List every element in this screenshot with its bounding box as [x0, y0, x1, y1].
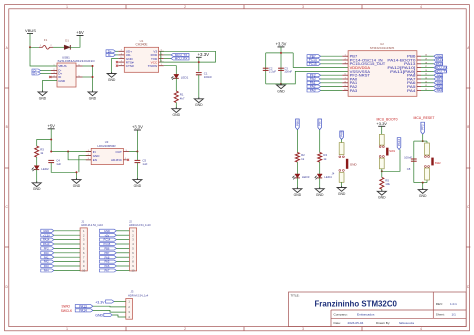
IC U3 LDK220M50R — [86, 140, 129, 164]
wire LED2 to ground — [36, 169, 38, 183]
wire R4 to LED4 — [319, 162, 321, 174]
svg-text:PA13: PA13 — [43, 242, 50, 246]
wire U3 OUT to +3.3V — [129, 130, 137, 152]
svg-text:2: 2 — [121, 50, 122, 52]
svg-text:GND: GND — [419, 194, 427, 198]
svg-text:GND: GND — [73, 184, 81, 188]
switch SW1 — [379, 134, 395, 168]
svg-text:GND: GND — [173, 113, 181, 117]
junction BOOT0 — [381, 170, 383, 172]
no-connect U1 RTS# — [116, 61, 118, 63]
svg-text:GND: GND — [33, 187, 41, 191]
power +3.3V (regulator out) — [132, 125, 143, 130]
jumper J4 GND-enable — [332, 143, 358, 183]
svg-text:PC14: PC14 — [104, 238, 111, 242]
svg-text:PA3: PA3 — [44, 264, 49, 268]
net label PB6 (LED branch) — [295, 119, 299, 130]
wire +3.3V to C1 — [198, 57, 200, 71]
ground (LED4) — [315, 187, 324, 197]
ground (USB1 GND pin) — [38, 90, 47, 100]
power +3.3V (CH340 V3) — [196, 52, 209, 58]
svg-text:D+: D+ — [33, 72, 37, 76]
svg-text:PA3: PA3 — [350, 89, 358, 93]
svg-text:1k: 1k — [301, 157, 305, 161]
svg-text:GND: GND — [95, 313, 103, 317]
svg-text:Drawn By:: Drawn By: — [376, 321, 390, 325]
net label PA5 (J2 pin 8) — [100, 260, 130, 264]
svg-text:1: 1 — [66, 5, 68, 9]
svg-text:3: 3 — [302, 5, 304, 9]
svg-text:PA4: PA4 — [407, 89, 415, 93]
svg-text:+3.3V: +3.3V — [43, 233, 50, 237]
svg-text:B: B — [6, 125, 8, 129]
svg-text:4: 4 — [121, 61, 122, 63]
wire C5 to ground — [136, 163, 138, 180]
ground (R5) — [377, 190, 386, 200]
svg-text:GND: GND — [294, 193, 302, 197]
svg-text:Sheet:: Sheet: — [436, 313, 445, 317]
svg-text:6: 6 — [345, 74, 346, 76]
svg-text:PA8: PA8 — [340, 131, 344, 137]
net label PA0 (U2) — [307, 77, 342, 81]
net label PA6 (J2 pin 9) — [100, 264, 130, 268]
svg-text:3: 3 — [302, 327, 304, 331]
svg-text:PA0: PA0 — [44, 251, 49, 255]
no-connect USB1 ID pin — [49, 76, 51, 78]
ground (reset) — [418, 188, 427, 198]
fuse F1 — [39, 38, 53, 49]
svg-text:J2: J2 — [129, 219, 132, 223]
svg-text:2: 2 — [184, 327, 186, 331]
wire R3 to LED2 — [36, 157, 38, 166]
svg-text:3: 3 — [88, 158, 89, 160]
net label PF2 (U2) — [307, 73, 342, 77]
svg-text:+5V: +5V — [104, 233, 109, 237]
svg-text:PA5: PA5 — [104, 260, 109, 264]
net label PA0 (J1 pin 6) — [41, 251, 80, 255]
svg-text:PB7: PB7 — [104, 251, 110, 255]
net label GND (J2 pin 1) — [100, 229, 130, 233]
wire decoupling loop — [266, 47, 294, 84]
net label PB6 (U2 right) — [421, 54, 443, 58]
svg-text:5: 5 — [126, 150, 127, 152]
no-connect U3 ADJ — [127, 159, 129, 161]
junction reset top — [422, 140, 424, 142]
resistor R5 — [380, 177, 391, 189]
svg-text:MCU_RX: MCU_RX — [175, 57, 188, 61]
junction reset bottom — [422, 182, 424, 184]
svg-text:Embarcados: Embarcados — [357, 313, 375, 317]
wire LED3 to ground — [296, 178, 298, 189]
net label PC14 (U2) — [307, 58, 342, 62]
svg-text:C8: C8 — [407, 167, 411, 171]
wire fuse to diode — [53, 46, 65, 48]
svg-text:GND: GND — [134, 184, 142, 188]
net label PA13 (J3) — [75, 304, 126, 308]
svg-text:HDR-M-2.54_1x10: HDR-M-2.54_1x10 — [81, 223, 103, 227]
net label PB7 (U2) — [307, 54, 342, 58]
net label D- (U1) — [106, 53, 118, 57]
svg-text:3: 3 — [345, 62, 346, 64]
svg-text:SWIO: SWIO — [62, 305, 71, 309]
wire LED4 to ground — [319, 178, 321, 189]
net label GND (J3) — [95, 313, 126, 317]
svg-text:Franzininho STM32C0: Franzininho STM32C0 — [314, 299, 397, 308]
svg-text:Date:: Date: — [334, 321, 342, 325]
net label MCU_TX (U2 right) — [421, 70, 447, 74]
svg-text:PA4: PA4 — [44, 269, 49, 273]
svg-text:2.2uF: 2.2uF — [269, 70, 276, 74]
svg-text:PC15: PC15 — [104, 242, 111, 246]
svg-text:PB7: PB7 — [318, 120, 322, 126]
wire LED1 to R1 — [175, 78, 177, 91]
svg-text:1: 1 — [161, 64, 162, 66]
wire VDD supply — [293, 67, 348, 69]
svg-text:VBUS: VBUS — [25, 28, 36, 33]
svg-text:5: 5 — [79, 75, 80, 77]
wire VBUS to USB1 pin1 — [30, 47, 57, 66]
capacitor C5 — [135, 152, 148, 166]
junction 3V3 out — [136, 151, 138, 153]
wire C4 to ground rail — [51, 163, 76, 180]
svg-text:LED3: LED3 — [302, 175, 310, 179]
wire U1 GND — [112, 59, 119, 74]
svg-text:LED2: LED2 — [41, 167, 49, 171]
svg-text:LED1: LED1 — [181, 76, 189, 80]
net label PB7 (J2 pin 6) — [100, 251, 130, 255]
svg-text:OUT: OUT — [116, 150, 123, 154]
junction regulator ground — [76, 171, 78, 173]
svg-text:+3.3V: +3.3V — [376, 121, 387, 126]
wire SW1 to R5 — [381, 169, 383, 178]
svg-text:SWCLK: SWCLK — [61, 309, 73, 313]
svg-text:GND: GND — [350, 163, 358, 167]
net label D+ (USB) — [32, 72, 51, 76]
svg-text:3: 3 — [54, 72, 55, 74]
wire +3.3V to SW1 — [381, 126, 383, 134]
svg-text:100nF: 100nF — [284, 70, 292, 74]
svg-text:+3.3V: +3.3V — [276, 42, 287, 47]
svg-text:TITLE:: TITLE: — [291, 294, 300, 298]
net label PA5 (U2 right) — [421, 85, 443, 89]
wire USB1 GND — [43, 81, 58, 92]
wire +5V rail — [37, 129, 91, 152]
svg-text:D1: D1 — [65, 38, 69, 42]
ground (C5) — [133, 178, 142, 188]
svg-text:PF2: PF2 — [421, 124, 425, 130]
junction decoupling — [280, 52, 282, 85]
net name MCU_BOOT0 — [376, 117, 397, 121]
net label PA7 (U2 right) — [421, 77, 443, 81]
svg-text:629-D84A262101010: 629-D84A262101010 — [58, 59, 96, 63]
wire VBUS to fuse — [30, 34, 39, 48]
svg-text:PA1: PA1 — [44, 255, 49, 259]
svg-text:PF2: PF2 — [44, 247, 49, 251]
ground (LED2) — [32, 181, 41, 191]
svg-text:Company:: Company: — [334, 313, 348, 317]
svg-text:PA2: PA2 — [44, 260, 49, 264]
power +5V (regulator input) — [47, 124, 55, 129]
net label MCU_TX — [164, 53, 189, 57]
wire PB7 to R4 — [319, 130, 321, 153]
IC U1 CH340E — [118, 39, 164, 72]
svg-text:+3.3V: +3.3V — [95, 301, 105, 305]
net label MCU_RX (U2 right) — [421, 66, 448, 70]
svg-text:1.0.1: 1.0.1 — [450, 302, 457, 306]
wire reset loop — [414, 141, 427, 183]
svg-text:EN: EN — [93, 158, 97, 162]
svg-text:9: 9 — [121, 64, 122, 66]
wire EN tie — [68, 152, 91, 160]
svg-text:2: 2 — [345, 59, 346, 61]
svg-text:PA14: PA14 — [43, 238, 50, 242]
svg-text:100nF: 100nF — [404, 156, 412, 160]
power +5V (USB) — [76, 30, 84, 35]
wire diode to +5V — [70, 36, 81, 48]
net label +5V (J2 pin 2) — [100, 233, 130, 237]
svg-text:PC15: PC15 — [309, 62, 317, 66]
net label PA7 (J2 pin 10) — [100, 269, 130, 273]
connector USB1 — [51, 56, 95, 87]
svg-text:F1: F1 — [44, 38, 48, 42]
svg-text:CH340E: CH340E — [135, 43, 147, 47]
svg-text:LDK220M50R: LDK220M50R — [97, 144, 115, 148]
svg-text:+3.3V: +3.3V — [132, 125, 143, 130]
svg-text:100nF: 100nF — [204, 75, 212, 79]
junction +5V tee — [50, 139, 69, 153]
capacitor C4 — [48, 159, 61, 166]
svg-text:GND: GND — [89, 96, 97, 100]
title block — [289, 292, 467, 327]
net label PA14 (J1 pin 3) — [41, 238, 80, 242]
resistor R3 — [35, 146, 45, 157]
svg-text:3: 3 — [121, 53, 122, 55]
capacitor C1 — [196, 72, 212, 79]
svg-text:1: 1 — [40, 45, 41, 47]
svg-text:1k: 1k — [323, 157, 327, 161]
LED LED4 — [315, 174, 332, 179]
svg-text:J3: J3 — [131, 290, 134, 294]
svg-text:7: 7 — [345, 78, 346, 80]
svg-text:PB6: PB6 — [104, 247, 110, 251]
ground (U1) — [107, 72, 116, 82]
wire R1 to ground — [175, 103, 177, 109]
net label PA13 (U2 right) — [421, 62, 443, 66]
svg-text:4: 4 — [125, 158, 126, 160]
svg-text:GND: GND — [104, 229, 110, 233]
net label PA14 (J3) — [75, 309, 126, 313]
resistor R4 — [318, 153, 328, 163]
svg-text:STM32C011F6P6: STM32C011F6P6 — [370, 46, 395, 50]
connector J3 — [126, 290, 149, 320]
svg-text:B: B — [467, 125, 469, 129]
ground (R1) — [172, 107, 181, 117]
svg-text:10: 10 — [120, 57, 122, 59]
capacitor C3 — [278, 66, 292, 73]
net label D- (USB) — [32, 69, 51, 73]
svg-text:+5V: +5V — [47, 124, 55, 129]
connector J1 — [80, 219, 103, 272]
svg-text:+3.3V: +3.3V — [197, 52, 209, 57]
junction VCC net — [198, 61, 200, 63]
svg-text:PA4: PA4 — [437, 89, 443, 93]
junction shield — [92, 65, 94, 78]
svg-text:SW2: SW2 — [435, 161, 441, 165]
svg-text:4k7: 4k7 — [180, 97, 185, 101]
power flag VBUS — [25, 28, 36, 33]
svg-text:GND: GND — [378, 196, 386, 200]
wire R5 to ground — [381, 189, 383, 191]
power +3.3V (MCU) — [276, 42, 287, 47]
svg-text:9: 9 — [345, 85, 346, 87]
svg-text:PA3: PA3 — [310, 89, 316, 93]
ground (LED3) — [293, 187, 302, 197]
svg-text:ADJ/NC: ADJ/NC — [111, 158, 123, 162]
net name MCU_RESET — [414, 116, 435, 120]
net name SWCLK — [61, 309, 73, 313]
net label PA3 (U2) — [307, 89, 342, 93]
net label PA13 (J1 pin 4) — [41, 242, 80, 246]
svg-text:GND: GND — [43, 229, 49, 233]
wire jumper to ground — [341, 182, 343, 187]
net label PF2 (reset) — [421, 122, 425, 141]
svg-text:1uF: 1uF — [142, 162, 147, 166]
wire R2 to LED3 — [296, 162, 298, 174]
svg-text:10: 10 — [344, 89, 346, 91]
svg-text:1/1: 1/1 — [452, 313, 457, 317]
capacitor C8 — [404, 156, 417, 171]
svg-text:1: 1 — [54, 64, 55, 66]
wire VSS return — [281, 71, 348, 84]
svg-text:GND: GND — [338, 192, 346, 196]
svg-text:J1: J1 — [81, 219, 84, 223]
svg-text:CTS#: CTS# — [126, 64, 134, 68]
net label PA2 (U2) — [307, 85, 342, 89]
svg-text:GND: GND — [58, 79, 66, 83]
wire reset to ground — [422, 183, 424, 190]
resistor R1 — [174, 91, 185, 103]
svg-text:SW1: SW1 — [389, 149, 395, 153]
svg-text:6: 6 — [79, 64, 80, 66]
connector J2 — [129, 219, 151, 272]
svg-text:2: 2 — [54, 69, 55, 71]
net label PB7 (LED branch) — [318, 119, 322, 130]
net label PA2 (J1 pin 8) — [41, 260, 80, 264]
no-connect U1 CTS# — [116, 65, 118, 67]
net label PA1 (J1 pin 7) — [41, 255, 80, 259]
diode D1 — [64, 38, 70, 49]
net label PA8 (U2 right) — [421, 73, 443, 77]
net label PF2 (J1 pin 5) — [41, 247, 80, 251]
svg-text:REV:: REV: — [436, 302, 443, 306]
svg-text:8: 8 — [345, 81, 346, 83]
net label PA1 (U2) — [307, 81, 342, 85]
ground (jumper) — [337, 186, 346, 196]
net label PA14 (BOOT0) — [382, 138, 401, 172]
net label MCU_RX — [164, 57, 189, 61]
svg-text:2: 2 — [50, 45, 51, 47]
net label D+ (U1) — [106, 49, 118, 53]
svg-text:+5V: +5V — [76, 30, 84, 35]
net label PA4 (J1 pin 10) — [41, 269, 80, 273]
svg-text:MCU_RESET: MCU_RESET — [414, 116, 435, 120]
svg-text:GND: GND — [277, 89, 285, 93]
svg-text:PA6: PA6 — [104, 264, 109, 268]
LED LED2 — [32, 166, 49, 171]
svg-text:4: 4 — [420, 327, 422, 331]
wire U3 GND — [79, 156, 91, 173]
svg-text:GND: GND — [108, 78, 116, 82]
power +3.3V (BOOT0) — [376, 121, 387, 126]
resistor R2 — [295, 153, 305, 163]
wire PA8 to jumper — [341, 139, 343, 142]
svg-text:GND: GND — [316, 193, 324, 197]
net label PC15 (U2) — [307, 62, 342, 66]
svg-text:1: 1 — [345, 55, 346, 57]
svg-text:PB6: PB6 — [295, 120, 299, 126]
svg-text:fabiosouza: fabiosouza — [399, 321, 414, 325]
net label PA3 (J1 pin 9) — [41, 264, 80, 268]
net label PA8 (J2 pin 7) — [100, 255, 130, 259]
switch SW2 — [425, 143, 442, 180]
ground (decoupling) — [277, 83, 286, 93]
svg-text:PA14: PA14 — [79, 309, 87, 313]
net label PA8 (jumper) — [340, 131, 344, 139]
net label PA6 (U2 right) — [421, 81, 443, 85]
power label +3.3V (J3) — [95, 300, 126, 305]
wire USB1 shield — [83, 66, 93, 92]
junction VBUS — [29, 46, 31, 48]
svg-text:1: 1 — [66, 327, 68, 331]
svg-text:2023-05-04: 2023-05-04 — [348, 321, 364, 325]
svg-text:GND: GND — [195, 103, 203, 107]
wire PB6 to R2 — [296, 130, 298, 153]
svg-text:HDR-M-2.54_1x10: HDR-M-2.54_1x10 — [129, 223, 151, 227]
svg-text:VBUS: VBUS — [58, 64, 66, 68]
svg-text:GND: GND — [39, 96, 47, 100]
net label PA14 (U2 right) — [421, 58, 443, 62]
svg-text:D-: D- — [108, 53, 111, 57]
ground (C1) — [194, 97, 203, 107]
svg-text:4: 4 — [420, 5, 422, 9]
LED LED1 — [171, 74, 188, 79]
net label PC15 (J2 pin 4) — [100, 242, 130, 246]
net label PC14 (J2 pin 3) — [100, 238, 130, 242]
wire V3/VCC loop — [161, 51, 216, 62]
svg-text:PA7: PA7 — [104, 269, 109, 273]
svg-text:LED4: LED4 — [324, 175, 332, 179]
IC U2 STM32C011F6P6 — [342, 42, 427, 96]
svg-text:TNOW: TNOW — [148, 64, 158, 68]
ground (USB shield) — [88, 90, 97, 100]
wire C1 to ground — [198, 75, 200, 99]
ground (regulator) — [72, 178, 81, 188]
svg-text:10k: 10k — [385, 182, 390, 186]
svg-text:4: 4 — [54, 75, 55, 77]
capacitor C2 — [263, 66, 277, 73]
svg-text:1: 1 — [88, 150, 89, 152]
net label PB6 (J2 pin 5) — [100, 247, 130, 251]
LED LED3 — [292, 174, 309, 179]
svg-text:1uF: 1uF — [56, 162, 61, 166]
svg-text:2: 2 — [88, 154, 89, 156]
svg-text:HDR-M-2.54_1x4: HDR-M-2.54_1x4 — [128, 294, 149, 298]
svg-text:PA14: PA14 — [397, 139, 401, 146]
svg-text:PA8: PA8 — [104, 255, 109, 259]
wire TNOW to LED1 — [164, 66, 177, 75]
net label GND (J1 pin 1) — [41, 229, 80, 233]
svg-text:2: 2 — [184, 5, 186, 9]
